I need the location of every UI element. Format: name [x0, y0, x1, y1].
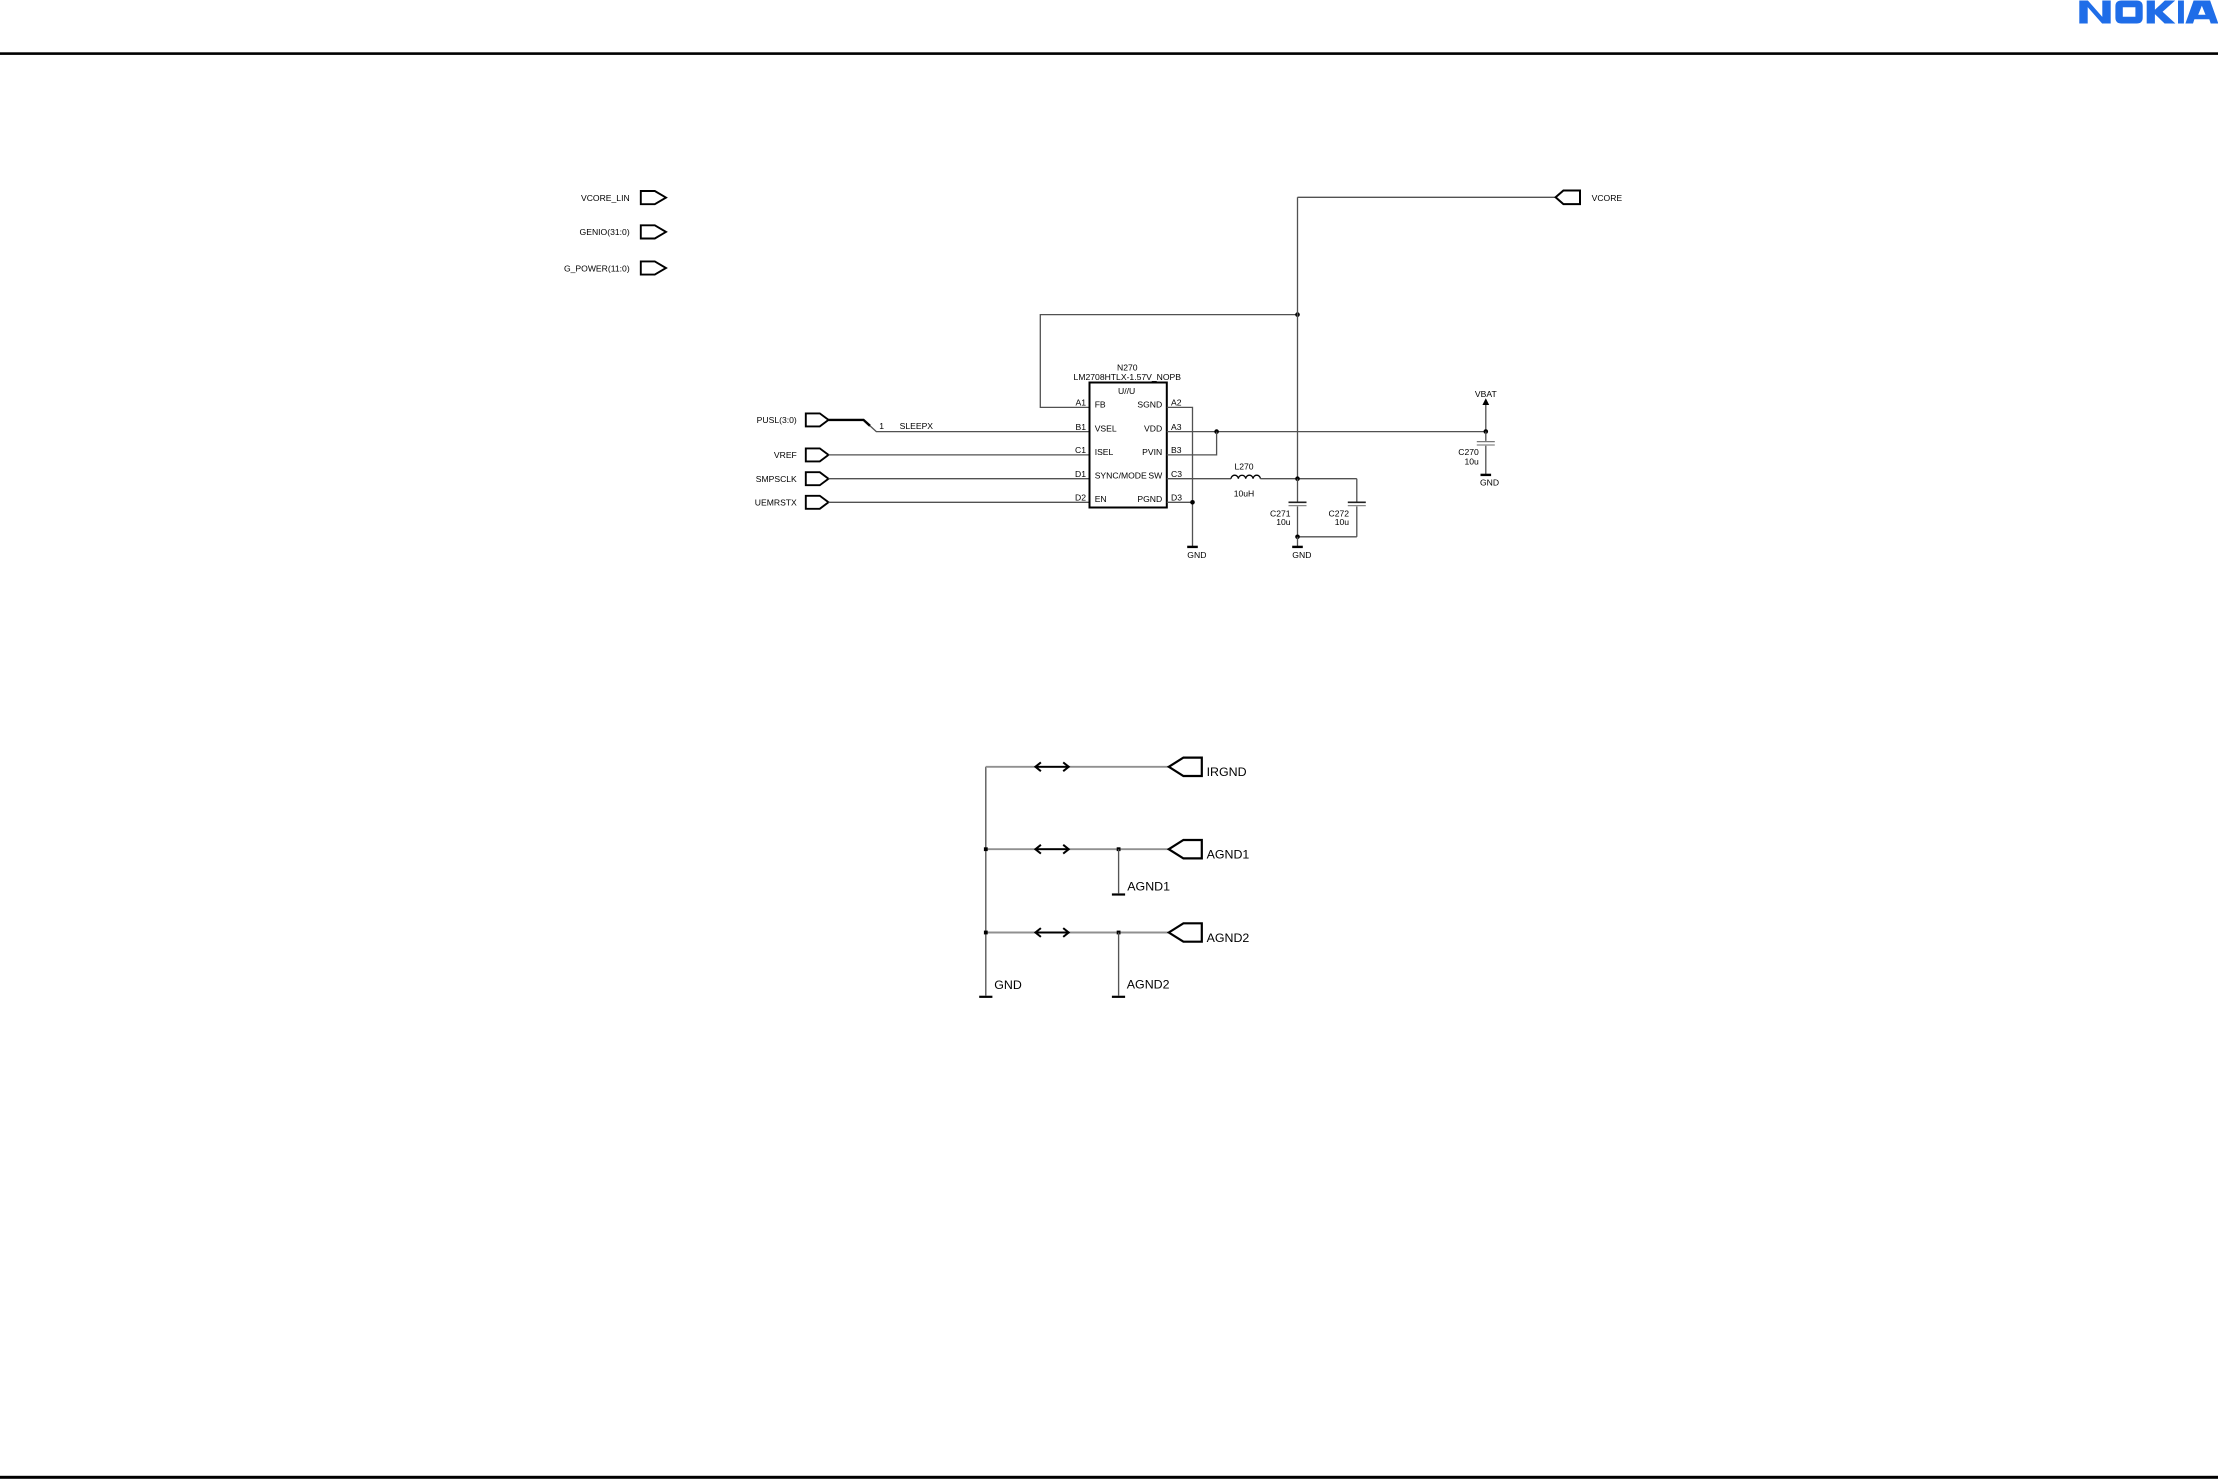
svg-text:A2: A2 — [1171, 398, 1182, 408]
svg-text:AGND1: AGND1 — [1207, 848, 1250, 862]
svg-text:1: 1 — [879, 421, 884, 431]
Nokia logo — [2079, 1, 2218, 24]
wire PVIN B3 — [1167, 432, 1217, 455]
ground AGND1 — [1112, 880, 1170, 895]
node GENIO(31:0) — [580, 225, 666, 238]
svg-text:SGND: SGND — [1137, 399, 1162, 409]
capacitor C271 — [1270, 479, 1306, 537]
svg-text:10u: 10u — [1335, 517, 1350, 527]
junction C271/C272 — [1295, 535, 1300, 540]
capacitor C270 — [1458, 432, 1495, 475]
svg-text:L270: L270 — [1234, 461, 1253, 471]
node IRGND — [1169, 758, 1247, 780]
svg-text:GENIO(31:0): GENIO(31:0) — [580, 227, 630, 237]
ground GND bottom-left — [979, 978, 1022, 997]
wire VDD A3 to VBAT — [1167, 431, 1486, 433]
svg-text:LM2708HTLX-1.57V_NOPB: LM2708HTLX-1.57V_NOPB — [1074, 372, 1182, 382]
power VBAT — [1475, 389, 1498, 432]
wire SGND A2 down to PGND — [1167, 407, 1193, 546]
svg-text:VCORE: VCORE — [1592, 193, 1623, 203]
node AGND1 — [1169, 840, 1250, 862]
svg-text:IRGND: IRGND — [1207, 765, 1247, 779]
junction AGND1 left — [984, 847, 988, 851]
wire PGND D3 stub — [1167, 501, 1193, 503]
svg-text:D1: D1 — [1075, 469, 1086, 479]
node VCORE_LIN — [581, 191, 666, 204]
node VCORE — [1556, 191, 1623, 205]
svg-text:D3: D3 — [1171, 493, 1182, 503]
junction D3 — [1190, 500, 1195, 505]
inductor L270 — [1231, 461, 1260, 498]
svg-text:SYNC/MODE: SYNC/MODE — [1095, 471, 1147, 481]
wire bottom-left vertical — [985, 767, 987, 996]
ground GND under C271 — [1292, 547, 1311, 560]
wire VREF to C1 — [829, 454, 1090, 456]
junction VDD/PVIN — [1214, 429, 1219, 434]
bottom rule — [0, 1476, 2218, 1479]
svg-text:VREF: VREF — [774, 450, 797, 460]
op-amp U1 : IC N270 LM2708 — [1074, 362, 1182, 507]
svg-text:GND: GND — [1187, 550, 1206, 560]
svg-text:10uH: 10uH — [1234, 488, 1255, 498]
svg-text:N270: N270 — [1117, 362, 1138, 372]
wire SW C3 — [1167, 478, 1231, 480]
node AGND2 — [1169, 923, 1250, 945]
svg-text:EN: EN — [1095, 494, 1107, 504]
svg-text:GND: GND — [994, 978, 1022, 992]
wire SMPSCLK to D1 — [829, 478, 1090, 480]
wire FB loop — [1040, 315, 1297, 408]
svg-text:C3: C3 — [1171, 469, 1182, 479]
svg-text:10u: 10u — [1464, 456, 1479, 466]
wire UEMRSTX to D2 — [829, 501, 1090, 503]
wire bus PUSL — [829, 420, 871, 426]
wire VCORE top — [1298, 196, 1556, 198]
svg-text:SLEEPX: SLEEPX — [900, 421, 934, 431]
svg-text:VSEL: VSEL — [1095, 424, 1117, 434]
wire IRGND — [986, 766, 1169, 768]
node G_POWER(11:0) — [564, 261, 666, 274]
svg-text:AGND2: AGND2 — [1127, 978, 1170, 992]
svg-text:GND: GND — [1480, 477, 1499, 487]
ground AGND2 — [1112, 978, 1170, 997]
wire AGND1 drop — [1118, 849, 1120, 893]
ground GND under C270 — [1480, 475, 1499, 487]
wire C272 bottom to junction — [1298, 536, 1357, 538]
svg-text:U//U: U//U — [1118, 386, 1135, 396]
junction SW/VCORE — [1295, 476, 1300, 481]
capacitor C272 — [1329, 479, 1366, 537]
top rule — [0, 52, 2218, 55]
node PUSL(3:0) — [757, 413, 829, 426]
svg-text:VBAT: VBAT — [1475, 389, 1498, 399]
svg-text:C1: C1 — [1075, 445, 1086, 455]
net-tie arrow IRGND — [1035, 762, 1068, 771]
wire AGND2 — [986, 932, 1169, 934]
wire SLEEPX — [870, 426, 1090, 432]
node SMPSCLK — [756, 472, 829, 485]
svg-text:SMPSCLK: SMPSCLK — [756, 474, 797, 484]
wire junction to GND — [1297, 537, 1299, 546]
junction FB/VCORE — [1295, 312, 1300, 317]
svg-text:SW: SW — [1148, 471, 1163, 481]
net-tie arrow AGND2 — [1035, 928, 1068, 937]
svg-text:ISEL: ISEL — [1095, 447, 1114, 457]
junction AGND2 drop — [1117, 931, 1121, 935]
wire AGND1 — [986, 848, 1169, 850]
svg-text:PGND: PGND — [1137, 494, 1162, 504]
svg-text:PUSL(3:0): PUSL(3:0) — [757, 415, 797, 425]
junction AGND2 left — [984, 931, 988, 935]
wire SW to C272 — [1260, 478, 1356, 480]
svg-text:PVIN: PVIN — [1142, 447, 1162, 457]
svg-text:10u: 10u — [1276, 517, 1291, 527]
ground GND under D3 — [1187, 547, 1206, 560]
net-tie arrow AGND1 — [1035, 845, 1068, 854]
junction VBAT/VDD — [1484, 429, 1489, 434]
svg-text:D2: D2 — [1075, 493, 1086, 503]
node UEMRSTX — [755, 496, 829, 509]
wire VCORE vertical — [1297, 197, 1299, 478]
wire AGND2 drop — [1118, 933, 1120, 996]
svg-text:B1: B1 — [1075, 422, 1086, 432]
svg-text:GND: GND — [1292, 550, 1311, 560]
junction AGND1 drop — [1117, 847, 1121, 851]
svg-text:A1: A1 — [1075, 398, 1086, 408]
svg-text:A3: A3 — [1171, 422, 1182, 432]
svg-text:UEMRSTX: UEMRSTX — [755, 497, 797, 507]
node VREF — [774, 448, 829, 461]
svg-text:B3: B3 — [1171, 445, 1182, 455]
svg-text:AGND2: AGND2 — [1207, 931, 1250, 945]
svg-text:AGND1: AGND1 — [1127, 880, 1170, 894]
svg-text:G_POWER(11:0): G_POWER(11:0) — [564, 263, 630, 273]
svg-text:VDD: VDD — [1144, 424, 1162, 434]
svg-text:VCORE_LIN: VCORE_LIN — [581, 193, 630, 203]
svg-text:FB: FB — [1095, 399, 1106, 409]
